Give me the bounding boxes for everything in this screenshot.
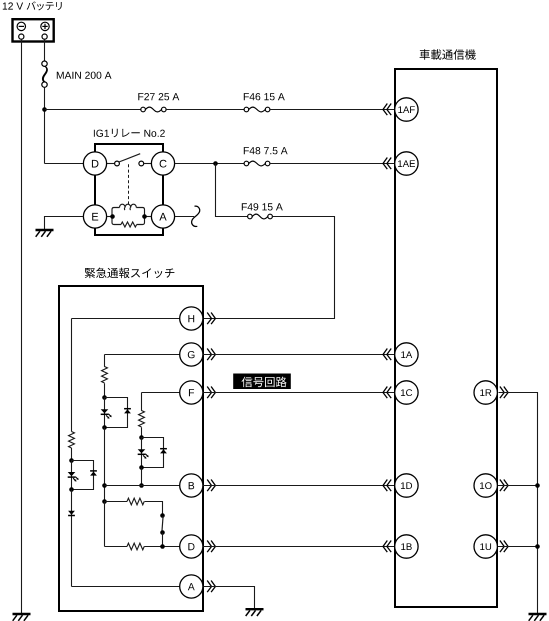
wire battery negative to ground [21,39,23,613]
arrow out of D [207,541,215,553]
arrow out of B [207,480,215,492]
label emergency call switch [85,268,175,279]
label 12V battery [3,1,62,10]
ground G2 (relay coil) [36,230,54,237]
wire middle column upper [104,355,106,367]
LED D6 [138,449,149,459]
label fuse F46 15 A [244,93,285,100]
wire junction to fuse F49 [216,164,248,217]
wire relay pin E to ground [45,217,84,230]
wire switch terminal G to middle column [105,354,180,356]
junction 1U / ground rail [535,544,540,549]
resistor middle column [102,367,108,384]
wire LED2 block left branch [104,398,106,428]
battery BAT1 box [13,19,54,41]
junction 1O / ground rail [535,483,540,488]
label fuse F48 7.5 A [244,147,288,154]
label in-vehicle communication device [420,49,476,60]
junction LED2 block bottom [102,425,107,430]
connector pin 1A [395,343,418,366]
resistor R4 [127,498,144,505]
arrow into 1B [383,541,391,553]
connector pin 1C [395,381,418,404]
wire LED2 block right branch [105,398,128,428]
wire 1R to ground rail [499,393,538,614]
relay pin C [151,152,174,175]
fuse F46 [244,107,270,112]
wire A to ground [204,587,255,609]
wire to resistor R4 [105,501,128,503]
wire left column to switch terminal A [72,586,180,588]
wire resistor R4 to push switch [145,502,163,514]
diode D2 (reverse protection) [90,471,97,476]
switch terminal D [180,535,203,558]
wire resistor to LED3 block [141,427,143,437]
signal circuit label box [233,374,291,390]
junction LED3 block top [139,435,144,440]
junction switch network top [102,499,107,504]
fusible link MAIN 200 A [42,61,48,87]
wire contact to relay pin C [144,163,152,165]
arrow into 1A [383,349,391,361]
battery plus terminal symbol [41,22,49,30]
connector pin 1U [474,535,497,558]
wire MAIN fusible link to relay terminal D [44,87,46,163]
wire 1O to ground rail [498,485,538,487]
diode D5 (reverse protection) [124,409,131,414]
battery plus post circle [42,34,47,39]
wire fuse F46 to connector 1AF [270,109,394,111]
arrow into 1D [383,480,391,492]
junction node F49 branch [213,161,218,166]
switch terminal H [180,307,203,330]
wire B row [105,485,180,487]
connector pin 1R [474,381,497,404]
ground G3 (switch) [246,609,264,616]
wire fuse F27 to fuse F46 [166,109,244,111]
emergency call switch box [59,286,203,611]
arrow out of G [207,349,215,361]
wire G to 1A [203,354,394,356]
wire F to 1C [203,392,394,394]
wire right column to B row [141,468,143,486]
battery minus terminal symbol [17,22,25,30]
label IG1 relay No.2 [94,129,165,137]
wire 1U to ground rail [498,546,538,548]
junction LED1 block top [69,458,74,463]
junction LED3 block bottom [139,465,144,470]
wire coil block to relay pin A [145,216,152,218]
switch terminal G [180,343,203,366]
wire LED1 block right branch [72,461,94,490]
junction coil block right [142,214,147,219]
diode D3 [68,511,75,516]
arrow out of 1U [500,541,508,553]
wire battery feed to relay pin D [45,163,84,165]
LED D1 (power indicator) [68,472,79,482]
connector pin 1O [474,474,497,497]
wire left column upper [71,319,73,432]
label MAIN 200 A [57,72,112,79]
arrow into 1AE [383,158,391,170]
wire relay pin E to coil block [107,216,112,218]
label signal circuit [242,377,287,388]
connector pin 1AF [395,98,418,121]
junction right column / B row [139,483,144,488]
battery minus post circle [19,34,24,39]
switch terminal A [180,575,203,598]
wire resistor to LED2 block [104,383,106,397]
relay pin D [83,152,106,175]
relay pin E [83,205,106,228]
diode D7 (reverse protection) [160,449,167,454]
pigtail coiled wire at relay A [192,206,200,226]
arrow out of 1O [500,480,508,492]
resistor right column [139,411,145,428]
arrow into 1C [383,387,391,399]
wire middle column to switch network [104,428,106,502]
wire block bottom to terminal A row [71,490,73,587]
junction node battery feed / F27 branch [42,107,47,112]
label fuse F27 25 A [138,93,179,100]
wire fuse F49 to switch terminal H [204,217,335,319]
switch terminal F [180,381,203,404]
wire switch terminal H to left column [72,318,180,320]
wire resistor R5 to switch terminal D [144,546,180,548]
junction push switch / D row [160,544,165,549]
wire LED1 block left branch [71,461,73,490]
relay contact fixed circles [115,161,144,166]
relay coil and resistor parallel block [112,204,145,227]
arrow out of 1R [500,387,508,399]
wire relay pin D to contact [107,163,115,165]
wire junction to fuse F27 [45,109,141,111]
wire switch terminal F to right column [142,392,180,394]
wire fuse F48 to connector 1AE [270,163,394,165]
fuse F48 [244,161,270,166]
connector pin 1D [395,474,418,497]
relay actuation dashed line [128,164,130,204]
wire switch network left side [104,502,106,547]
connector pin 1AE [395,152,418,175]
arrow out of F [207,387,215,399]
wire D to 1B [203,546,394,548]
junction push switch top [160,513,165,518]
resistor R5 [127,543,144,550]
wire right column upper [141,393,143,411]
fuse F27 [141,107,166,112]
push switch blade [162,516,163,532]
arrow out of A [207,581,215,593]
relay switch blade [119,154,140,162]
wire LED3 block left branch [141,438,143,468]
arrow out of H [207,313,215,325]
switch terminal B [180,474,203,497]
in-vehicle communication device box [395,69,497,607]
wire to resistor R5 [105,546,128,548]
fuse F49 [248,214,273,219]
wire LED3 block right branch [142,438,164,468]
wire push switch to D row [162,533,164,547]
relay IG1 No.2 box [95,144,163,235]
ground G1 (battery negative) [13,614,31,621]
relay pin A [151,205,174,228]
wire relay pin A to pigtail [175,216,195,218]
junction LED2 block top [102,395,107,400]
wire battery positive to MAIN fusible link [44,39,46,61]
LED D4 (call indicator) [101,409,112,419]
junction middle column / B row [102,483,107,488]
label fuse F49 15 A [242,203,283,210]
wire resistor to LED block [71,448,73,461]
junction coil block left [110,214,115,219]
junction LED1 block bottom [69,487,74,492]
connector pin 1B [395,535,418,558]
junction push switch bottom [160,530,165,535]
arrow into 1AF [383,104,391,116]
resistor left column [69,432,75,449]
ground G4 (communication device) [529,614,547,621]
wire B to 1D [203,485,394,487]
wire relay pin C to fuse F48 [175,163,245,165]
